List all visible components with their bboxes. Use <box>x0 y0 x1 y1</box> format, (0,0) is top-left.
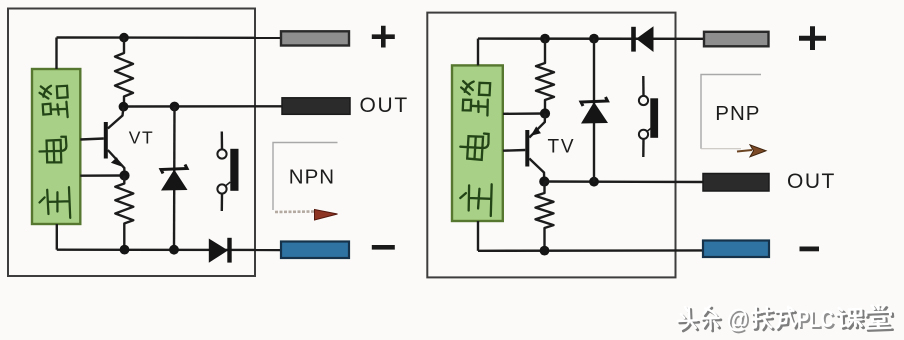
svg-text:PNP: PNP <box>715 102 760 125</box>
watermark 头条@技成PLC课堂 <box>678 306 893 336</box>
main circuit block (right) <box>452 65 503 221</box>
node: R1 / collector junction <box>119 102 129 112</box>
switch contact symbol (right) <box>639 76 658 157</box>
wire: OUT rail (left) <box>124 105 283 108</box>
wire: + rail (right) <box>478 37 704 40</box>
resistor R4 (right lower) <box>536 182 554 251</box>
transistor TV (PNP, right) <box>503 114 545 182</box>
wire: main block bottom to 0V rail (right) <box>477 221 479 251</box>
wire: 0V rail (left) <box>57 248 281 251</box>
wire: main block to emitter node (left) <box>80 174 124 177</box>
PNP label box <box>701 75 761 149</box>
terminal + (left, grey) <box>281 31 349 45</box>
svg-text:NPN: NPN <box>289 165 335 188</box>
diode VD (left, series in 0V rail) <box>209 238 232 263</box>
node: zener / OUT rail (right) <box>589 177 599 187</box>
right sensor outer box <box>427 13 675 278</box>
zener diode VZ (right) <box>581 39 608 182</box>
label OUT (right) <box>787 170 836 193</box>
node: +rail / R1 junction <box>119 33 129 43</box>
node: +rail / R3 junction <box>540 34 550 44</box>
zener diode VZ (left) <box>161 107 188 250</box>
resistor R3 (right upper) <box>536 39 554 114</box>
terminal - (right, blue) <box>703 241 769 258</box>
node: R2 / 0V rail <box>120 245 130 255</box>
label NPN <box>289 165 335 188</box>
wire: main block top to +rail (right) <box>477 39 479 66</box>
wire: main block bottom to 0V rail <box>56 224 58 250</box>
wire: + rail (left) <box>57 36 282 39</box>
label + (left) <box>372 26 395 48</box>
svg-text:@: @ <box>727 306 749 334</box>
wire: main block top to +rail <box>55 38 57 70</box>
node: emitter junction (right) <box>540 108 550 118</box>
node: OUT rail / zener junction <box>170 102 180 112</box>
terminal + (right, grey) <box>704 32 769 47</box>
label - (left) <box>372 245 395 250</box>
wire: main block to emitter node (right) <box>503 112 545 115</box>
switch contact symbol (left) <box>217 132 238 212</box>
label VT <box>129 128 154 148</box>
diode VD (right, series in + rail, pointing left) <box>631 26 653 52</box>
node: emitter junction <box>119 170 129 180</box>
terminal OUT (right, black) <box>703 174 769 192</box>
left sensor outer box <box>8 9 255 277</box>
resistor R2 (left lower) <box>115 176 133 250</box>
node: collector / OUT rail (right) <box>539 176 549 186</box>
label OUT (left) <box>360 94 409 117</box>
svg-text:TV: TV <box>548 136 576 157</box>
label TV <box>548 136 576 157</box>
brown arrow mark (right) <box>737 145 766 157</box>
node: zener / 0V rail <box>169 245 179 255</box>
label PNP <box>715 102 760 125</box>
terminal - (left, blue) <box>281 242 349 259</box>
watermark smudge (left) <box>275 210 315 213</box>
NPN label box <box>273 143 338 211</box>
red arrow mark (left) <box>315 210 338 221</box>
wire: OUT rail (right) <box>544 180 703 183</box>
svg-text:OUT: OUT <box>787 170 836 193</box>
resistor R1 (left upper) <box>115 38 133 107</box>
svg-text:PLC: PLC <box>797 306 834 333</box>
svg-text:VT: VT <box>129 128 154 148</box>
node: +rail / zener junction (right) <box>589 34 599 44</box>
svg-text:OUT: OUT <box>360 94 409 117</box>
main circuit block (left) <box>32 69 80 224</box>
label + (right) <box>799 26 826 50</box>
label - (right) <box>800 247 820 252</box>
node: R4 / 0V rail (right) <box>540 246 550 256</box>
terminal OUT (left, black) <box>282 98 350 115</box>
wire: 0V rail (right) <box>478 249 703 252</box>
transistor VT (NPN, left) <box>80 107 124 176</box>
